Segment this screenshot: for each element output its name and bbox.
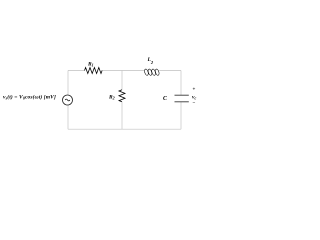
svg-text:C: C	[163, 96, 167, 102]
wire middle branch	[121, 71, 123, 130]
wire right branch	[180, 71, 182, 130]
wire left branch upper	[67, 71, 69, 96]
source VS tilde	[65, 99, 70, 101]
svg-text:R1: R1	[87, 62, 94, 68]
inductor L coil loops	[144, 69, 160, 76]
svg-text:+: +	[193, 88, 196, 93]
wire top	[68, 70, 181, 72]
wire left branch lower	[67, 105, 69, 129]
svg-text:vc: vc	[192, 95, 196, 101]
svg-text:L2: L2	[147, 57, 154, 65]
resistor R1	[85, 68, 103, 74]
source VS circle	[63, 95, 73, 105]
svg-text:−: −	[193, 102, 196, 107]
svg-text:vs(t) = V0cos(ωt) [mV]: vs(t) = V0cos(ωt) [mV]	[3, 93, 56, 100]
capacitor C plates	[175, 95, 189, 102]
svg-text:R2: R2	[108, 95, 115, 101]
wire bottom	[68, 128, 181, 130]
resistor R2	[119, 90, 125, 102]
